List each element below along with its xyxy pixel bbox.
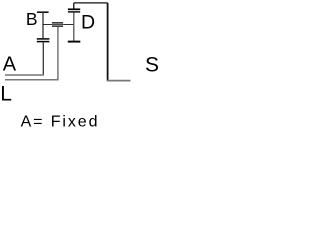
svg-text:S: S — [145, 54, 159, 77]
wire C stem vertical — [57, 27, 59, 80]
capacitor B top plate (T-bar) — [37, 11, 49, 13]
wire top horizontal — [74, 2, 108, 4]
wire L horizontal — [5, 79, 59, 81]
wire middle horizontal — [43, 24, 74, 26]
wire S foot — [107, 80, 131, 82]
wire D stem upper — [73, 3, 75, 9]
svg-text:A: A — [3, 54, 17, 76]
wire A horizontal — [5, 74, 44, 76]
wire right vertical — [107, 3, 109, 81]
wire B stem lower — [42, 42, 44, 75]
svg-text:A= Fixed: A= Fixed — [21, 114, 100, 131]
svg-text:D: D — [81, 11, 95, 33]
svg-text:L: L — [0, 82, 12, 105]
capacitor D plates — [68, 8, 80, 10]
capacitor B lower plates — [37, 38, 50, 40]
wire D stem lower — [73, 13, 75, 41]
wire B stem upper — [42, 12, 44, 38]
capacitor D bottom plate (T-bar) — [68, 41, 81, 43]
capacitor C plates (center) — [52, 22, 63, 24]
svg-text:B: B — [26, 9, 38, 29]
